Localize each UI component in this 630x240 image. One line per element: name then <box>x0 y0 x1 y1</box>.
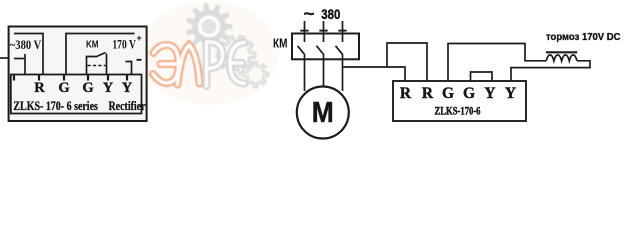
svg-text:Y: Y <box>484 85 495 102</box>
wire: AC lead over label to terminal R <box>14 34 43 75</box>
contactor pole 3 wire to motor <box>342 54 344 92</box>
svg-text:380: 380 <box>321 6 340 22</box>
terminal labels R G G Y Y <box>34 80 133 96</box>
svg-text:Rectifier: Rectifier <box>109 99 146 113</box>
svg-text:Y: Y <box>505 85 516 102</box>
KM contact <box>87 57 96 75</box>
contactor pole 3 blade <box>336 46 343 54</box>
svg-text:G: G <box>463 85 475 102</box>
wire: phase to block R1 <box>343 67 406 81</box>
wire: resistor return to Y2 <box>511 61 590 81</box>
jumper G2-Y1 <box>471 72 493 81</box>
contactor pole 2 blade <box>317 46 324 54</box>
rectifier block ZLKS-170-6 <box>393 81 526 121</box>
svg-text:G: G <box>58 80 69 96</box>
contactor pole 2 terminal bar <box>319 30 327 32</box>
svg-text:G: G <box>82 80 93 96</box>
contactor pole 3 wire top <box>342 21 344 42</box>
svg-text:ZLKS- 170- 6 series: ZLKS- 170- 6 series <box>13 99 98 113</box>
svg-text:R: R <box>34 80 45 96</box>
svg-text:Y: Y <box>122 80 133 96</box>
contactor pole 1 terminal bar <box>300 30 308 32</box>
brake resistor overline <box>546 51 577 53</box>
contactor pole 1 wire top <box>304 21 306 42</box>
wire: G1 to brake resistor <box>448 44 546 82</box>
rectifier outer box <box>9 27 147 122</box>
brake resistor zigzag <box>546 55 577 61</box>
contactor pole 2 wire to motor <box>323 54 325 88</box>
svg-text:G: G <box>442 85 454 102</box>
wire: AC supply dash outside box <box>0 57 9 59</box>
terminal ticks <box>14 75 127 81</box>
contactor pole 2 wire top <box>323 21 325 42</box>
wire: AC lead into strip <box>24 54 26 75</box>
svg-text:Y: Y <box>103 80 114 96</box>
block terminal labels R R G G Y Y <box>400 85 516 102</box>
svg-text:~380 V: ~380 V <box>10 38 42 52</box>
svg-text:~: ~ <box>304 6 315 23</box>
minus mark <box>137 59 142 61</box>
wire: AC lead stub <box>14 58 25 60</box>
svg-text:170 V: 170 V <box>112 38 135 52</box>
svg-text:M: M <box>312 97 334 129</box>
svg-text:R: R <box>422 85 434 102</box>
svg-text:КМ: КМ <box>273 35 288 50</box>
svg-text:тормоз 170V DC: тормоз 170V DC <box>546 31 621 43</box>
svg-text:ZLKS-170-6: ZLKS-170-6 <box>435 105 481 117</box>
watermark logo <box>139 1 279 105</box>
motor M circle <box>297 87 349 139</box>
contactor pole 1 blade <box>298 46 305 54</box>
svg-text:R: R <box>400 85 412 102</box>
svg-text:+: + <box>137 33 142 43</box>
contactor pole 1 wire to motor <box>304 54 306 92</box>
wire: block R2 jumper to phase <box>387 43 427 81</box>
contactor KM box <box>292 34 359 60</box>
wire: DC minus lead to terminal Y <box>126 62 132 75</box>
terminal strip box <box>11 75 142 114</box>
contactor pole 3 terminal bar <box>338 30 346 32</box>
wire: overhead bus from G to 170V+ <box>66 34 135 75</box>
svg-text:KM: KM <box>86 40 99 51</box>
